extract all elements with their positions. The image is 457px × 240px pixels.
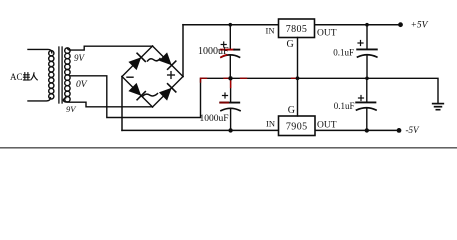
svg-text:G: G [288, 105, 295, 116]
svg-text:G: G [287, 39, 294, 50]
label G U2 [288, 105, 295, 116]
pin G U1 [297, 38, 299, 79]
label OUT U1 [317, 29, 337, 39]
wire center tap 0V ground path [70, 76, 438, 118]
terminal +5V [398, 22, 403, 27]
junction node ground rail C1 C2 [228, 76, 232, 80]
regulator U2 7905 [279, 116, 316, 136]
AC mark tilde top [148, 59, 161, 61]
junction node top rail C1 [229, 23, 233, 27]
wire primary top lead [28, 49, 52, 52]
AC mark tilde bottom [143, 94, 158, 97]
wire top rail right segment [315, 24, 401, 26]
ground symbol [433, 104, 444, 110]
label G U1 [287, 39, 294, 50]
svg-text:7905: 7905 [286, 122, 308, 133]
svg-text:1000uF: 1000uF [198, 46, 229, 57]
svg-text:+5V: +5V [411, 20, 429, 30]
wire bottom rail right segment [315, 129, 400, 131]
svg-text:9V: 9V [74, 53, 86, 63]
regulator U1 7805 [279, 19, 315, 38]
capacitor C2 1000uF lower [220, 78, 240, 130]
label C1 1000uF [198, 46, 229, 57]
svg-text:1000uF: 1000uF [199, 114, 228, 124]
transformer T1 primary winding [49, 51, 54, 99]
pin G U2 [297, 78, 299, 116]
junction node bottom rail C4 [365, 128, 369, 132]
red tint segments on ground rail [201, 78, 297, 82]
svg-text:0V: 0V [76, 80, 88, 90]
label OUT U2 [317, 121, 337, 131]
diode D1 top-left [128, 53, 145, 70]
wire top rail left segment [183, 24, 279, 26]
terminal -5V [397, 128, 402, 133]
wire secondary bottom tap to bridge [63, 98, 152, 107]
label IN U1 [266, 25, 275, 35]
svg-text:0.1uF: 0.1uF [333, 47, 354, 57]
svg-text:IN: IN [266, 25, 275, 35]
svg-text:9V: 9V [66, 104, 77, 114]
capacitor C3 0.1uF upper [357, 25, 377, 79]
junction node ground rail G pins [296, 76, 300, 80]
wire secondary top tap to bridge [67, 46, 152, 50]
label 9V bottom [66, 104, 77, 114]
svg-text:0.1uF: 0.1uF [334, 101, 355, 111]
svg-text:IN: IN [266, 119, 275, 129]
svg-text:OUT: OUT [317, 29, 337, 39]
label AC input [10, 72, 23, 82]
svg-text:7805: 7805 [286, 24, 308, 35]
label 9V top [74, 53, 86, 63]
label 0V [76, 80, 88, 90]
transformer T1 secondary winding [65, 48, 70, 102]
bridge rectifier edges [122, 46, 183, 107]
label C3 0.1uF [333, 47, 354, 57]
capacitor C4 0.1uF lower [356, 78, 376, 130]
label IN U2 [266, 119, 275, 129]
wire bridge + output up to top rail [182, 25, 184, 77]
svg-text:AC: AC [10, 72, 23, 82]
minus mark of bridge [127, 76, 133, 78]
svg-text:OUT: OUT [317, 121, 337, 131]
label C2 1000uF [199, 114, 228, 124]
plus mark of bridge [168, 72, 175, 79]
diode D2 top-right [159, 52, 176, 69]
junction node bottom rail C2 [228, 128, 232, 132]
diode D4 bottom-right [159, 84, 176, 101]
capacitor C1 1000uF upper [221, 25, 240, 79]
junction node top rail C3 [365, 23, 369, 27]
page rule [0, 147, 457, 149]
diode D3 bottom-left [128, 83, 145, 100]
label C4 0.1uF [334, 101, 355, 111]
wire primary bottom lead [28, 98, 50, 101]
wire bottom rail left segment [122, 129, 279, 131]
svg-text:-5V: -5V [406, 125, 420, 135]
wire bridge - output down to bottom rail [121, 77, 123, 131]
junction node ground rail C3 C4 [365, 77, 369, 81]
transformer core [59, 47, 62, 103]
